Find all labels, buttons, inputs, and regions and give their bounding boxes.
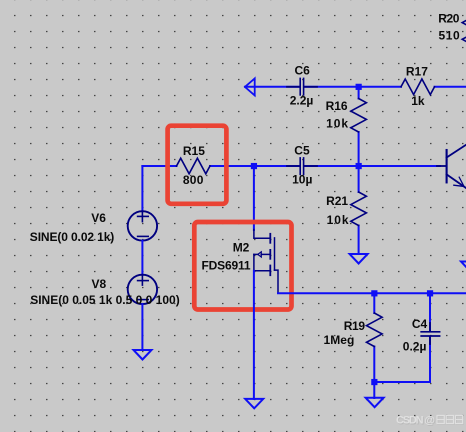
svg-text:V8: V8 bbox=[92, 277, 107, 291]
svg-text:510: 510 bbox=[439, 29, 461, 43]
wire bottom rail y=382 bbox=[374, 381, 430, 383]
svg-text:R17: R17 bbox=[406, 65, 428, 79]
voltage source V6 bbox=[128, 211, 157, 240]
red highlight box around R15 bbox=[168, 126, 227, 204]
wire R16 bottom lead bbox=[358, 132, 360, 166]
wire R19 top lead bbox=[373, 293, 375, 313]
svg-text:R19: R19 bbox=[344, 319, 366, 333]
port arrow at left end of top rail bbox=[245, 78, 255, 95]
junction node R19 bottom bbox=[371, 379, 377, 385]
svg-text:FDS6911: FDS6911 bbox=[202, 259, 251, 273]
svg-text:SINE(0 0.02 1k): SINE(0 0.02 1k) bbox=[30, 230, 115, 244]
wire M2 drain from junction bbox=[253, 166, 255, 230]
junction node gate/C4 bbox=[427, 290, 433, 296]
ground under R21 bbox=[350, 254, 368, 264]
wire main rail y=166 segment right bbox=[305, 165, 440, 167]
mosfet M2 bbox=[254, 230, 278, 294]
svg-text:R16: R16 bbox=[326, 99, 348, 113]
resistor R17 bbox=[401, 79, 435, 95]
capacitor C4 plates bbox=[421, 323, 439, 344]
wire V6 top lead bbox=[141, 166, 143, 211]
wire gate rail y=293.3 bbox=[278, 292, 466, 294]
red highlight box around M2 bbox=[194, 222, 291, 310]
ground under R19 bbox=[366, 398, 384, 408]
wire R21 top lead bbox=[358, 166, 360, 192]
svg-text:0.2µ: 0.2µ bbox=[403, 340, 427, 354]
capacitor C4 top lead wire bbox=[429, 293, 431, 330]
svg-text:C5: C5 bbox=[294, 144, 310, 158]
junction node gate/R19 bbox=[371, 290, 377, 296]
wire R21 bottom lead bbox=[358, 226, 360, 255]
svg-text:10µ: 10µ bbox=[292, 173, 312, 187]
wire top rail y=86.8 segment left bbox=[245, 86, 300, 88]
ground under V8 bbox=[134, 350, 152, 360]
wire V8 bottom lead bbox=[141, 304, 143, 350]
resistor R21 bbox=[351, 192, 367, 226]
svg-text:CSDN @: CSDN @ bbox=[396, 415, 435, 427]
svg-text:R20: R20 bbox=[438, 11, 460, 25]
capacitor C6 bbox=[287, 78, 317, 95]
voltage source V8 bbox=[128, 275, 157, 304]
svg-text:R15: R15 bbox=[183, 144, 205, 158]
capacitor C4 bottom lead wire bbox=[429, 337, 431, 382]
wire M2 source to ground bbox=[253, 271, 255, 399]
wire main rail y=166 segment mid bbox=[210, 165, 300, 167]
npn transistor Q right edge bbox=[437, 142, 466, 191]
svg-text:R21: R21 bbox=[326, 194, 348, 208]
resistor R19 bbox=[367, 313, 383, 347]
wire R19 bottom lead bbox=[373, 347, 375, 399]
resistor R16 bbox=[351, 99, 367, 133]
svg-text:1Meg: 1Meg bbox=[324, 333, 355, 347]
svg-text:V6: V6 bbox=[91, 211, 106, 225]
wire main rail y=166 segment left bbox=[142, 165, 176, 167]
svg-text:SINE(0 0.05 1k 0.5 0 0 100): SINE(0 0.05 1k 0.5 0 0 100) bbox=[30, 293, 180, 307]
resistor R15 bbox=[177, 158, 211, 174]
svg-text:C6: C6 bbox=[295, 64, 311, 78]
svg-text:1k: 1k bbox=[411, 94, 425, 108]
svg-text:2.2µ: 2.2µ bbox=[290, 93, 314, 107]
ground under M2 source bbox=[245, 399, 263, 408]
wire top rail y=86.8 segment middle bbox=[304, 86, 401, 88]
wire R16 top lead bbox=[358, 87, 360, 99]
svg-text:C4: C4 bbox=[412, 317, 428, 331]
junction node R15/C5/M2-drain bbox=[251, 163, 257, 169]
junction node C5/R16/R21/base bbox=[356, 163, 362, 169]
wire V6-V8 bbox=[141, 241, 143, 275]
wire top rail y=86.8 segment right bbox=[435, 86, 466, 88]
svg-text:800: 800 bbox=[183, 173, 204, 187]
svg-text:M2: M2 bbox=[233, 240, 250, 254]
watermark CSDN bbox=[396, 415, 463, 428]
svg-text:10k: 10k bbox=[326, 117, 348, 131]
svg-text:10k: 10k bbox=[327, 213, 349, 227]
resistor R20 clipped at top right bbox=[462, 10, 466, 44]
capacitor C5 bbox=[287, 158, 317, 175]
ground at right edge clipped bbox=[461, 262, 466, 272]
junction node C6/R16/R17 bbox=[356, 84, 362, 90]
